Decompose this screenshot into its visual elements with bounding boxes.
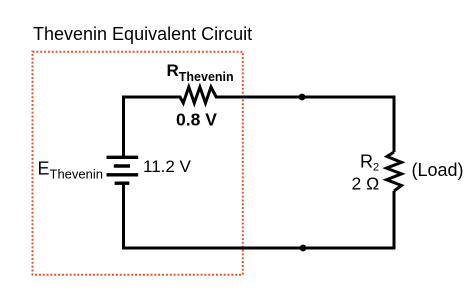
svg-text:11.2 V: 11.2 V xyxy=(143,157,192,176)
svg-text:Thevenin Equivalent Circuit: Thevenin Equivalent Circuit xyxy=(33,24,252,44)
wire: right vertical, top wire down to resistor R2 xyxy=(393,97,396,152)
svg-text:0.8 V: 0.8 V xyxy=(176,110,217,130)
battery E_Thevenin: plate 3 (long) xyxy=(107,173,139,176)
wire: top-left corner to resistor, with resistor R_Thevenin zigzag, to top-right corner xyxy=(124,87,395,103)
battery E_Thevenin: plate 4 (short) xyxy=(115,181,130,184)
svg-text:(Load): (Load) xyxy=(412,160,464,180)
wire: right vertical, resistor R2 down to bottom wire xyxy=(393,191,396,248)
battery E_Thevenin: plate 2 (short) xyxy=(114,164,130,167)
battery E_Thevenin: plate 1 (long) xyxy=(107,156,139,159)
resistor R2 zigzag xyxy=(387,152,402,191)
wire: left vertical, top wire down to battery top plate xyxy=(122,97,125,157)
node: bottom junction dot xyxy=(300,245,307,252)
node: top junction dot xyxy=(299,94,306,101)
svg-text:2 Ω: 2 Ω xyxy=(352,174,380,194)
wire: bottom horizontal xyxy=(124,247,395,249)
wire: left vertical, battery bottom plate down to bottom wire xyxy=(122,183,125,248)
Thevenin equivalent boundary box (dotted) xyxy=(33,52,243,275)
